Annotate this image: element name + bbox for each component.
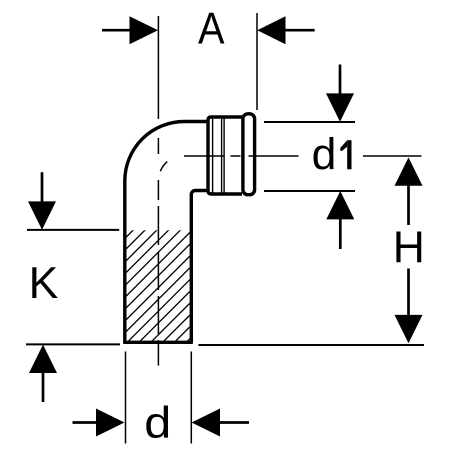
dimension d1: down arrow <box>326 65 354 122</box>
bend centerline arc dash <box>158 155 184 181</box>
dimension H: down arrow (bottom) <box>395 269 423 344</box>
dimension d1: up arrow <box>326 191 354 249</box>
dimension d: left arrow <box>73 409 125 437</box>
dimension d: right arrow <box>192 409 249 437</box>
svg-text:K: K <box>29 259 59 308</box>
pipe bottom end face <box>123 341 193 344</box>
dimension K: down arrow <box>28 172 56 230</box>
dimension d: right extension line <box>190 352 192 444</box>
dimension H: bottom reference line <box>198 344 424 346</box>
svg-text:d: d <box>144 399 171 448</box>
dimension d1: upper reference line <box>264 121 355 123</box>
digit 1 of label d1 (drawn) <box>340 140 351 169</box>
socket body outline <box>208 117 242 194</box>
hatch section lines (insertion depth zone) <box>7 221 308 345</box>
dimension K: up arrow <box>29 345 57 402</box>
socket end rim <box>243 114 255 195</box>
socket groove line 1 <box>221 118 223 193</box>
dimension A: right extension line <box>256 13 258 110</box>
dimension A: right arrow <box>257 16 314 44</box>
elbow inner contour: right edge + inner corner + bottom edge of horizontal run <box>191 191 207 344</box>
svg-text:H: H <box>393 223 425 272</box>
socket inner step line <box>212 118 214 193</box>
socket groove line 2 <box>223 118 225 193</box>
dimension A: left arrow <box>102 16 158 44</box>
vertical centerline (also extension line for A, left) <box>157 16 159 366</box>
dimension K: lower reference line <box>26 343 120 345</box>
horizontal centerline of socket run <box>184 155 422 157</box>
dimension d: left extension line <box>125 352 127 444</box>
elbow outer contour: left edge + outer bend + top edge <box>125 122 208 344</box>
svg-text:d: d <box>312 131 337 180</box>
svg-text:A: A <box>198 5 225 54</box>
dimension d1: lower reference line <box>264 190 355 192</box>
dimension K: upper reference line <box>27 229 119 231</box>
dimension H: up arrow (top) <box>395 157 423 225</box>
